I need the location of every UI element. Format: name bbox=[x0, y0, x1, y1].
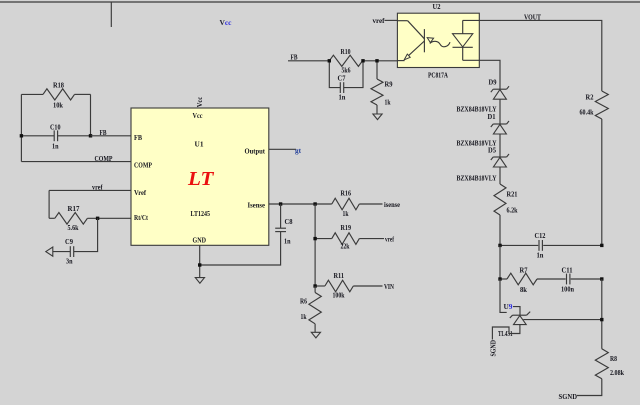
capacitor C11 bbox=[566, 274, 568, 285]
node junction right bbox=[89, 134, 92, 137]
wire Isense bbox=[269, 203, 332, 205]
svg-text:BZX84B18VLY: BZX84B18VLY bbox=[457, 175, 497, 183]
svg-text:60.4k: 60.4k bbox=[580, 109, 594, 117]
svg-text:SGND: SGND bbox=[490, 340, 498, 357]
svg-text:vref: vref bbox=[385, 235, 395, 243]
wire R10 to U2 bbox=[363, 60, 398, 62]
resistor R17 bbox=[49, 217, 55, 219]
diode D9 zener bbox=[493, 88, 506, 90]
node junction GND bbox=[198, 263, 201, 266]
wire left vertical bbox=[20, 94, 22, 161]
svg-text:R9: R9 bbox=[385, 80, 393, 88]
svg-text:Vcc: Vcc bbox=[193, 112, 203, 120]
svg-text:C12: C12 bbox=[535, 232, 546, 240]
svg-text:FB: FB bbox=[134, 134, 142, 142]
wire FB stub bbox=[288, 60, 329, 62]
svg-text:isense: isense bbox=[384, 201, 400, 209]
node junction C8 bbox=[279, 202, 282, 205]
resistor R16 bbox=[332, 198, 360, 210]
wire GND bbox=[199, 245, 201, 277]
svg-text:Rt/Ct: Rt/Ct bbox=[134, 214, 149, 222]
wire R7 to C11 bbox=[537, 278, 566, 280]
wire D1-D5 bbox=[499, 134, 501, 157]
svg-text:100k: 100k bbox=[333, 292, 345, 300]
wire vertical left column bbox=[499, 245, 501, 279]
op-amp U2 optocoupler box bbox=[397, 13, 479, 67]
node junction R9 bbox=[375, 59, 378, 62]
wire TL431 cathode step bbox=[513, 307, 520, 316]
svg-text:R19: R19 bbox=[341, 224, 352, 232]
svg-text:R10: R10 bbox=[341, 48, 351, 56]
svg-text:D5: D5 bbox=[488, 146, 496, 154]
wire TL431 ref out bbox=[523, 319, 602, 321]
wire FB to U1 bbox=[91, 135, 132, 137]
node junction C12 right bbox=[600, 244, 603, 247]
svg-text:1n: 1n bbox=[339, 93, 346, 101]
wire COMP bbox=[21, 161, 131, 163]
svg-text:2.08k: 2.08k bbox=[610, 369, 624, 377]
svg-text:C9: C9 bbox=[65, 238, 73, 246]
wire Output bbox=[269, 148, 296, 150]
resistor R18 bbox=[21, 93, 43, 95]
svg-text:3n: 3n bbox=[66, 258, 73, 266]
svg-text:vref: vref bbox=[373, 17, 386, 25]
svg-text:U1: U1 bbox=[195, 140, 205, 148]
capacitor C7 bbox=[329, 61, 340, 88]
ground C9 rotated bbox=[46, 247, 53, 256]
svg-text:1n: 1n bbox=[52, 142, 59, 150]
svg-text:1k: 1k bbox=[385, 99, 391, 107]
ground R6 bbox=[311, 332, 320, 338]
wire C11 right bbox=[571, 278, 602, 280]
wire top stub bbox=[110, 2, 112, 27]
svg-text:R8: R8 bbox=[610, 355, 617, 363]
node junction R7 left bbox=[498, 277, 501, 280]
svg-text:100n: 100n bbox=[561, 285, 574, 293]
node junction R19 bbox=[313, 237, 316, 240]
wire squiggle light arrow of U2 bbox=[430, 41, 450, 46]
svg-text:U2: U2 bbox=[433, 3, 441, 11]
wire TL431 anode to SGND bbox=[492, 325, 520, 340]
svg-text:1k: 1k bbox=[343, 210, 349, 218]
svg-text:Vcc: Vcc bbox=[196, 97, 204, 108]
svg-text:22k: 22k bbox=[341, 242, 350, 250]
svg-text:C8: C8 bbox=[285, 218, 293, 226]
resistor R2 bbox=[595, 91, 608, 119]
capacitor C8 bbox=[280, 204, 282, 228]
wire R8 to SGND bbox=[577, 379, 602, 396]
node junction R11 bbox=[313, 284, 316, 287]
wire D5-R21 bbox=[499, 167, 501, 184]
node junction Rt/Ct bbox=[96, 217, 99, 220]
wire VOUT bbox=[479, 20, 602, 91]
wire R18 right vertical bbox=[90, 94, 92, 135]
svg-text:5.6k: 5.6k bbox=[68, 224, 79, 232]
svg-text:6.2k: 6.2k bbox=[507, 207, 518, 215]
node junction TL431 right bbox=[600, 318, 603, 321]
node junction C11 right bbox=[600, 277, 603, 280]
node junction C7-right bbox=[361, 59, 364, 62]
svg-text:U9: U9 bbox=[504, 303, 514, 311]
node junction bus top bbox=[313, 202, 316, 205]
svg-text:VIN: VIN bbox=[384, 283, 394, 291]
capacitor C9 bbox=[74, 218, 98, 251]
capacitor C12 bbox=[538, 240, 540, 251]
wire vref to U2 bbox=[385, 19, 398, 21]
wire R9 to ground bbox=[376, 105, 378, 114]
svg-text:Vref: Vref bbox=[134, 189, 147, 197]
svg-text:PC817A: PC817A bbox=[428, 72, 448, 80]
diode D5 zener bbox=[493, 156, 506, 158]
ground U1 bbox=[195, 278, 204, 284]
resistor R6 bbox=[314, 286, 316, 293]
svg-text:D9: D9 bbox=[489, 78, 497, 86]
wire D9-D1 bbox=[499, 99, 501, 124]
svg-text:gt: gt bbox=[295, 147, 302, 155]
diode LED of U2 bbox=[463, 19, 480, 21]
wire vref down bbox=[48, 190, 50, 218]
node junction left bbox=[20, 134, 23, 137]
wire C12 row right bbox=[543, 244, 602, 246]
wire R21 down bbox=[499, 215, 501, 245]
svg-text:R17: R17 bbox=[68, 205, 80, 213]
svg-text:R21: R21 bbox=[507, 191, 518, 199]
diode D1 zener bbox=[493, 123, 506, 125]
svg-text:GND: GND bbox=[193, 237, 207, 245]
svg-text:C7: C7 bbox=[338, 74, 346, 82]
svg-text:COMP: COMP bbox=[134, 161, 153, 169]
resistor R10 bbox=[329, 55, 362, 66]
svg-text:Vcc: Vcc bbox=[220, 19, 232, 27]
svg-text:R11: R11 bbox=[334, 272, 345, 280]
svg-text:D1: D1 bbox=[488, 113, 496, 121]
resistor R21 bbox=[494, 184, 506, 215]
svg-text:C11: C11 bbox=[562, 266, 573, 274]
svg-text:R16: R16 bbox=[341, 189, 352, 197]
svg-text:R7: R7 bbox=[520, 266, 528, 274]
svg-text:1k: 1k bbox=[301, 313, 307, 321]
wire left column down to TL431 ref bbox=[500, 279, 507, 312]
svg-text:10k: 10k bbox=[53, 102, 63, 110]
svg-text:LT1245: LT1245 bbox=[191, 210, 211, 218]
wire bus vertical bbox=[314, 204, 316, 286]
transistor U9 TL431 shunt regulator bbox=[513, 314, 527, 316]
wire right column mid bbox=[601, 279, 603, 349]
wire C12 row left bbox=[500, 244, 538, 246]
svg-text:Isense: Isense bbox=[248, 201, 266, 209]
resistor R9 bbox=[376, 61, 378, 79]
resistor R19 bbox=[315, 238, 332, 240]
svg-text:LT: LT bbox=[187, 168, 215, 190]
resistor R7 bbox=[500, 278, 507, 280]
transistor Q phototransistor of U2 bbox=[397, 20, 407, 22]
svg-text:R18: R18 bbox=[53, 81, 64, 89]
node junction FB-C7 bbox=[328, 59, 331, 62]
wire vref bbox=[49, 189, 131, 191]
svg-text:1n: 1n bbox=[284, 238, 291, 246]
wire top rail bbox=[0, 1, 640, 3]
svg-text:C10: C10 bbox=[50, 123, 61, 131]
capacitor C10 bbox=[21, 135, 54, 137]
op-amp U1 LT1245 box bbox=[131, 108, 269, 245]
svg-text:R2: R2 bbox=[586, 94, 594, 102]
svg-text:R6: R6 bbox=[300, 298, 307, 306]
ground R9 bbox=[373, 114, 382, 120]
wire R2 down bbox=[601, 119, 603, 245]
svg-text:8k: 8k bbox=[520, 286, 527, 294]
svg-text:SGND: SGND bbox=[559, 393, 578, 400]
svg-text:5k6: 5k6 bbox=[342, 66, 351, 74]
wire U2 to D9 bbox=[479, 60, 500, 89]
svg-text:1n: 1n bbox=[537, 252, 544, 260]
resistor R11 bbox=[315, 285, 325, 287]
svg-text:Output: Output bbox=[245, 147, 266, 155]
node junction C12 left bbox=[498, 244, 501, 247]
resistor R8 bbox=[595, 349, 608, 379]
